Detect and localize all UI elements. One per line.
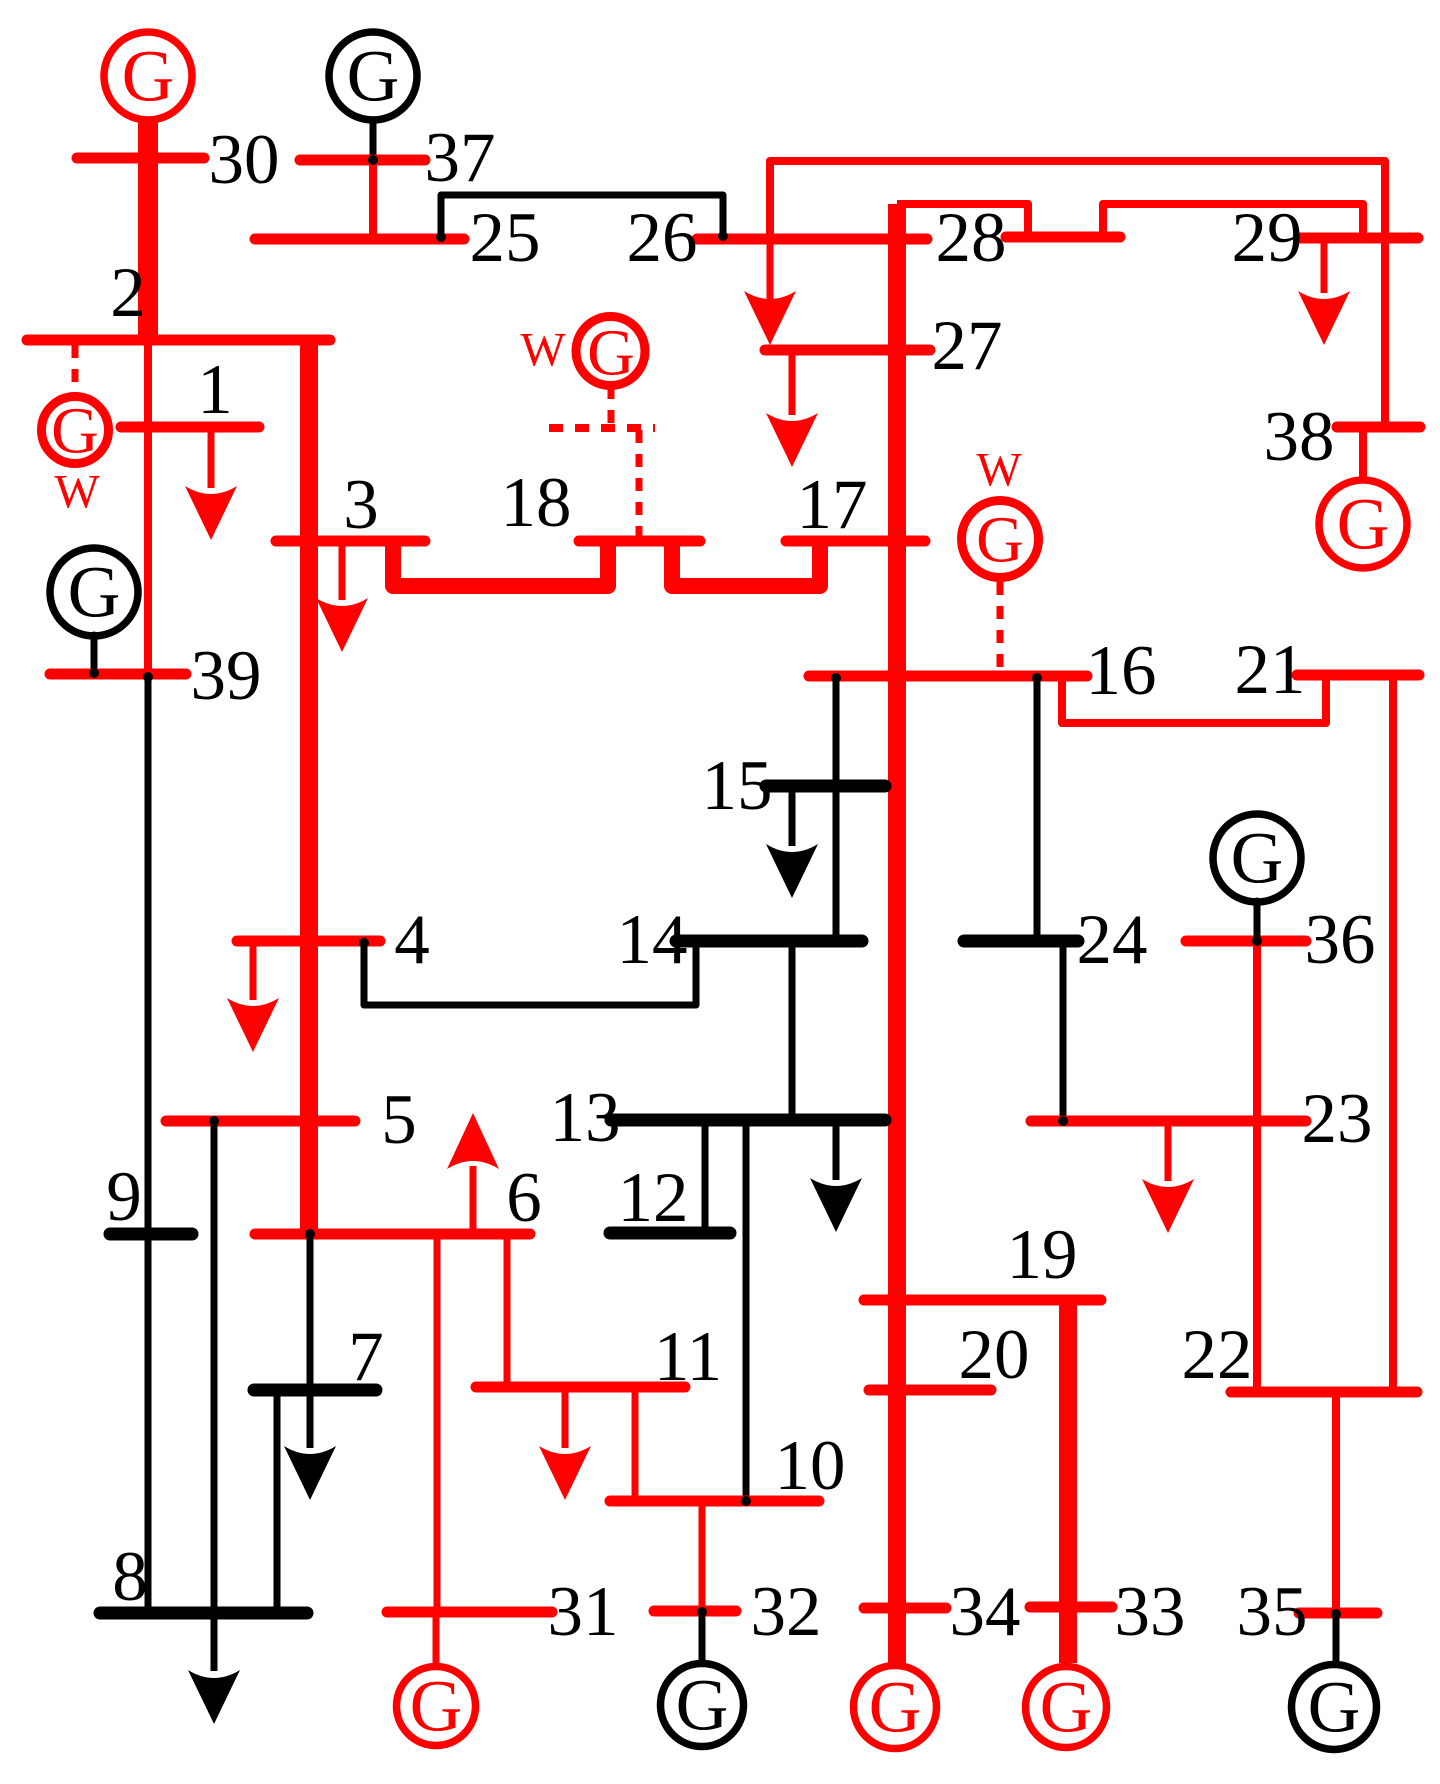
svg-text:16: 16 — [1086, 632, 1157, 710]
svg-text:G: G — [1308, 1667, 1361, 1748]
svg-text:33: 33 — [1115, 1573, 1186, 1651]
bus 8 — [100, 1607, 307, 1620]
line 6-11 — [504, 1234, 511, 1387]
load arrow bus 7 (black) — [307, 1390, 314, 1448]
bus 1 — [121, 422, 259, 433]
svg-text:G: G — [1337, 484, 1390, 565]
bus 38 — [1337, 422, 1420, 433]
svg-text:10: 10 — [775, 1427, 846, 1505]
generator G37 — [329, 32, 417, 120]
load arrow bus 1 — [208, 427, 215, 488]
stem G39 to bus 39 — [91, 635, 98, 672]
line 29-38 — [1381, 237, 1389, 427]
stem bus35 to G35 (black) — [1333, 1615, 1340, 1662]
bus 7 — [254, 1384, 376, 1397]
svg-text:G: G — [1231, 818, 1284, 899]
stem bus32 to G32 (black) — [699, 1613, 706, 1661]
generator G33 — [1026, 1667, 1107, 1748]
line 24-23 (black) — [1060, 941, 1067, 1121]
line 21-22 — [1389, 675, 1397, 1392]
junction dots (black) — [368, 155, 378, 165]
svg-text:15: 15 — [702, 747, 773, 825]
bus 14 — [676, 935, 862, 948]
svg-text:G: G — [676, 1665, 729, 1746]
bus 31 — [387, 1607, 552, 1618]
svg-text:7: 7 — [348, 1318, 384, 1396]
line 16-21 (U) — [1062, 675, 1326, 723]
load arrow bus 29 — [1321, 237, 1328, 293]
bus 4 — [237, 936, 380, 947]
svg-text:G: G — [122, 36, 175, 117]
bus 17 — [786, 536, 925, 547]
svg-text:W: W — [54, 466, 100, 519]
svg-text:19: 19 — [1007, 1216, 1078, 1294]
line 19-33 (thick) — [1059, 1300, 1077, 1663]
bus 29 — [1298, 233, 1418, 244]
load arrow bus 4 — [250, 941, 257, 1000]
line 14-13 (black) — [789, 941, 796, 1120]
svg-text:39: 39 — [191, 637, 262, 715]
bus 33 — [1030, 1602, 1112, 1613]
generator G31 — [397, 1666, 476, 1747]
bus 34 — [864, 1603, 946, 1614]
svg-text:G: G — [347, 36, 400, 117]
line 7-8 (black) — [274, 1390, 281, 1613]
svg-text:30: 30 — [209, 121, 280, 199]
bus 9 — [110, 1228, 192, 1241]
line 6-7 (black) — [307, 1234, 314, 1390]
svg-text:11: 11 — [654, 1318, 722, 1396]
svg-text:G: G — [51, 395, 99, 468]
bus 5 — [166, 1116, 355, 1127]
generator G36 — [1213, 814, 1301, 902]
bus 28 — [1006, 232, 1120, 243]
dashed stem W16 to bus 16 — [997, 582, 1004, 669]
line 36-23-22 — [1253, 941, 1261, 1392]
svg-text:13: 13 — [550, 1079, 621, 1157]
load arrow bus 23 — [1165, 1121, 1172, 1181]
bus 19 — [864, 1295, 1101, 1306]
load arrow bus 27 — [789, 350, 796, 415]
svg-text:G: G — [587, 317, 635, 390]
trunk line 2-3-4-5-6 (thick vertical) — [300, 340, 318, 1234]
svg-text:14: 14 — [617, 901, 688, 979]
svg-text:5: 5 — [381, 1081, 417, 1159]
load arrow bus 13 (black) — [833, 1120, 840, 1180]
generator G35 — [1292, 1665, 1377, 1750]
bus 26 — [697, 234, 927, 245]
generation arrow bus 6 (up) — [470, 1166, 477, 1234]
svg-text:18: 18 — [501, 464, 572, 542]
wind generator W18 — [520, 317, 645, 390]
bus 13 — [611, 1114, 885, 1127]
generator G38 — [1319, 480, 1407, 568]
bus 11 — [476, 1382, 685, 1393]
svg-text:G: G — [410, 1666, 463, 1747]
svg-text:27: 27 — [932, 307, 1003, 385]
bus 35 — [1299, 1608, 1377, 1619]
svg-text:8: 8 — [112, 1538, 148, 1616]
svg-text:17: 17 — [797, 466, 868, 544]
stem G36 to bus 36 — [1254, 901, 1261, 940]
svg-text:G: G — [68, 552, 121, 633]
bus 24 — [964, 935, 1078, 948]
svg-text:31: 31 — [548, 1573, 619, 1651]
wind generator W1 — [42, 395, 109, 519]
line 4-14 (black) — [364, 941, 696, 1005]
stem G37 to bus 37 — [370, 120, 377, 158]
svg-text:4: 4 — [394, 901, 430, 979]
load arrow bus 15 (black) — [789, 786, 796, 846]
bus 36 — [1186, 936, 1306, 947]
bus 32 — [654, 1606, 736, 1617]
svg-text:38: 38 — [1264, 398, 1335, 476]
bus 15 — [766, 780, 885, 793]
line 2-1-39 — [144, 340, 152, 674]
line 11-10 — [632, 1387, 639, 1501]
bus 10 — [610, 1496, 819, 1507]
bus 6 — [255, 1229, 530, 1240]
stem bus38 to G38 — [1359, 430, 1367, 478]
bus 30 — [77, 153, 204, 164]
svg-text:3: 3 — [343, 466, 379, 544]
bus 23 — [1031, 1116, 1306, 1127]
bus 22 — [1231, 1387, 1417, 1398]
line 28-29 — [1103, 204, 1363, 237]
svg-text:28: 28 — [936, 199, 1007, 277]
svg-text:35: 35 — [1237, 1573, 1308, 1651]
svg-text:G: G — [1040, 1667, 1093, 1748]
line 16-15-14 (black) — [833, 676, 840, 941]
bus 16 — [809, 671, 1087, 682]
svg-text:36: 36 — [1305, 901, 1376, 979]
svg-text:37: 37 — [425, 119, 496, 197]
bus 2 — [27, 335, 330, 346]
svg-text:6: 6 — [506, 1159, 542, 1237]
line 26-29 — [770, 161, 1385, 239]
bus 39 — [50, 669, 186, 680]
stem bus31 to G31 — [433, 1612, 440, 1664]
svg-text:1: 1 — [197, 351, 233, 429]
svg-text:32: 32 — [751, 1573, 822, 1651]
svg-text:25: 25 — [470, 199, 541, 277]
line 3-18 (thick U) — [393, 541, 608, 586]
dashed stem bus2 to wind generator W1 — [72, 345, 79, 393]
load arrow bus 11 — [562, 1387, 569, 1448]
line 6-31 — [434, 1234, 441, 1612]
line 5-8 with load arrow (black) — [211, 1121, 218, 1671]
line 16-24 (black) — [1034, 676, 1041, 941]
svg-text:12: 12 — [618, 1159, 689, 1237]
svg-text:22: 22 — [1182, 1316, 1253, 1394]
line 18-17 (thick U) — [672, 541, 820, 586]
svg-text:29: 29 — [1232, 199, 1303, 277]
line 22-35 — [1332, 1392, 1340, 1613]
bus 3 — [276, 536, 425, 547]
svg-text:21: 21 — [1235, 631, 1306, 709]
svg-text:20: 20 — [959, 1316, 1030, 1394]
bus 25 — [255, 234, 464, 245]
load arrow bus 3 — [339, 541, 346, 600]
trunk line 26-27-17-16-19-20-34 (thick vertical) — [888, 204, 906, 1663]
svg-text:W: W — [520, 324, 566, 377]
line 10-32 — [699, 1501, 706, 1611]
svg-text:23: 23 — [1302, 1080, 1373, 1158]
svg-text:24: 24 — [1077, 901, 1148, 979]
svg-text:G: G — [976, 504, 1024, 577]
bus 21 — [1297, 670, 1419, 681]
generator G32 — [661, 1664, 744, 1747]
svg-text:G: G — [869, 1667, 922, 1748]
svg-text:9: 9 — [106, 1158, 142, 1236]
line G30 to bus 2 (thick) — [138, 118, 158, 340]
wind generator W16 — [962, 444, 1039, 578]
line 13-12 (black) — [702, 1120, 709, 1233]
dashed link W18 to bus 18 — [608, 386, 615, 426]
flow arrow 26 to 27 — [767, 239, 774, 300]
line 13-10 (black) — [743, 1120, 750, 1501]
svg-text:2: 2 — [110, 254, 146, 332]
bus 37 — [300, 155, 425, 166]
bus 18 — [579, 536, 700, 547]
line 37-25 — [369, 160, 377, 239]
generator G34 — [854, 1666, 937, 1749]
svg-text:34: 34 — [950, 1573, 1021, 1651]
generator G30 — [104, 32, 192, 120]
line 26-28 — [897, 204, 1028, 237]
generator G39 — [50, 548, 138, 636]
svg-text:26: 26 — [627, 199, 698, 277]
bus 20 — [869, 1385, 991, 1396]
bus 12 — [610, 1227, 730, 1240]
svg-text:W: W — [976, 444, 1022, 497]
line 39-9-8 (black) — [145, 674, 152, 1613]
line 25-26 (black) — [441, 195, 723, 237]
bus 27 — [765, 345, 930, 356]
